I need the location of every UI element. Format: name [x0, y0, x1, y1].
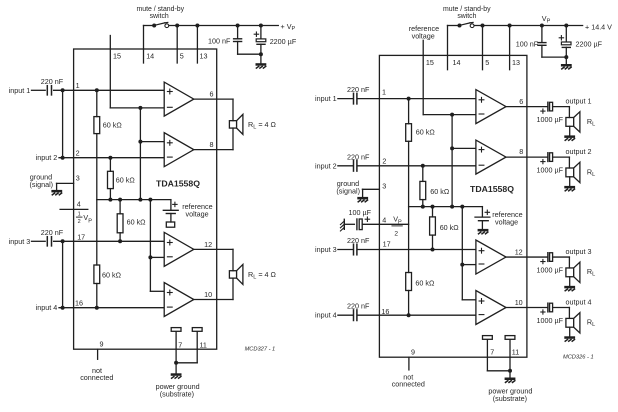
- svg-text:input 2: input 2: [36, 153, 58, 162]
- svg-text:input 1: input 1: [315, 94, 337, 103]
- svg-text:MCD327 - 1: MCD327 - 1: [245, 346, 276, 352]
- svg-text:8: 8: [519, 147, 523, 156]
- svg-text:17: 17: [77, 232, 85, 241]
- svg-text:60 kΩ: 60 kΩ: [416, 127, 436, 136]
- svg-text:2: 2: [382, 156, 386, 165]
- svg-text:220 nF: 220 nF: [347, 302, 370, 311]
- svg-text:60 kΩ: 60 kΩ: [430, 187, 450, 196]
- svg-text:1000 µF: 1000 µF: [537, 266, 564, 275]
- svg-text:9: 9: [100, 339, 104, 348]
- svg-text:220 nF: 220 nF: [347, 152, 370, 161]
- svg-text:output 1: output 1: [566, 96, 592, 105]
- svg-text:input 3: input 3: [315, 245, 337, 254]
- svg-text:14: 14: [453, 58, 461, 67]
- svg-text:1: 1: [76, 81, 80, 90]
- svg-text:17: 17: [383, 239, 391, 248]
- svg-text:switch: switch: [457, 13, 476, 20]
- svg-text:220 nF: 220 nF: [347, 236, 370, 245]
- svg-text:1: 1: [78, 211, 81, 217]
- svg-text:100 µF: 100 µF: [349, 208, 372, 217]
- svg-text:(signal): (signal): [30, 180, 54, 189]
- svg-text:10: 10: [204, 290, 212, 299]
- svg-text:3: 3: [382, 181, 386, 190]
- svg-text:1000 µF: 1000 µF: [537, 166, 564, 175]
- svg-text:5: 5: [485, 58, 489, 67]
- svg-text:input 2: input 2: [315, 161, 337, 170]
- svg-text:100 nF: 100 nF: [208, 37, 231, 46]
- svg-text:12: 12: [515, 247, 523, 256]
- svg-text:8: 8: [210, 140, 214, 149]
- svg-text:2: 2: [76, 148, 80, 157]
- svg-text:connected: connected: [80, 373, 113, 382]
- svg-text:60 kΩ: 60 kΩ: [415, 279, 435, 288]
- svg-text:100 nF: 100 nF: [516, 40, 539, 49]
- svg-text:5: 5: [180, 52, 184, 61]
- svg-text:1: 1: [382, 87, 386, 96]
- svg-text:output 3: output 3: [566, 247, 592, 256]
- svg-text:MCD326 - 1: MCD326 - 1: [563, 354, 594, 360]
- svg-text:2: 2: [78, 219, 81, 225]
- svg-text:voltage: voltage: [495, 217, 518, 226]
- svg-text:60 kΩ: 60 kΩ: [116, 176, 136, 185]
- svg-text:6: 6: [210, 89, 214, 98]
- svg-text:220 nF: 220 nF: [41, 77, 64, 86]
- svg-text:1000 µF: 1000 µF: [537, 316, 564, 325]
- svg-text:input 4: input 4: [36, 303, 58, 312]
- svg-text:2200 µF: 2200 µF: [270, 37, 297, 46]
- svg-text:14: 14: [146, 52, 154, 61]
- svg-text:7: 7: [490, 348, 494, 357]
- svg-text:voltage: voltage: [186, 210, 209, 219]
- svg-text:mute / stand-by: mute / stand-by: [443, 6, 491, 13]
- svg-text:15: 15: [113, 52, 121, 61]
- svg-text:7: 7: [178, 340, 182, 349]
- svg-text:60 kΩ: 60 kΩ: [127, 217, 147, 226]
- svg-text:10: 10: [515, 298, 523, 307]
- svg-text:4: 4: [77, 200, 81, 209]
- svg-text:220 nF: 220 nF: [41, 228, 64, 237]
- svg-text:output 4: output 4: [566, 297, 592, 306]
- svg-text:9: 9: [411, 348, 415, 357]
- svg-text:60 kΩ: 60 kΩ: [440, 223, 460, 232]
- svg-text:+ 14.4 V: + 14.4 V: [585, 22, 612, 31]
- svg-text:(substrate): (substrate): [160, 389, 194, 398]
- svg-text:220 nF: 220 nF: [347, 85, 370, 94]
- svg-text:4: 4: [382, 216, 386, 225]
- svg-text:(substrate): (substrate): [493, 394, 527, 403]
- svg-text:connected: connected: [392, 380, 425, 389]
- svg-text:TDA1558Q: TDA1558Q: [470, 184, 514, 194]
- svg-text:11: 11: [199, 340, 206, 349]
- svg-text:1000 µF: 1000 µF: [537, 115, 564, 124]
- svg-text:60 kΩ: 60 kΩ: [103, 120, 123, 129]
- svg-text:switch: switch: [150, 13, 169, 20]
- svg-text:2200 µF: 2200 µF: [576, 39, 603, 48]
- svg-text:voltage: voltage: [412, 31, 435, 40]
- svg-text:12: 12: [204, 240, 212, 249]
- svg-text:16: 16: [75, 298, 83, 307]
- svg-text:13: 13: [200, 52, 208, 61]
- svg-text:TDA1558Q: TDA1558Q: [156, 179, 200, 189]
- svg-text:13: 13: [512, 58, 520, 67]
- svg-text:60 kΩ: 60 kΩ: [102, 271, 122, 280]
- svg-text:(signal): (signal): [336, 186, 360, 195]
- svg-text:input 3: input 3: [9, 237, 31, 246]
- svg-text:mute / stand-by: mute / stand-by: [137, 6, 185, 13]
- svg-text:output 2: output 2: [566, 147, 592, 156]
- svg-text:3: 3: [76, 173, 80, 182]
- svg-text:input 1: input 1: [9, 86, 31, 95]
- svg-text:6: 6: [519, 97, 523, 106]
- svg-text:2: 2: [394, 231, 398, 238]
- svg-text:11: 11: [512, 348, 519, 357]
- svg-text:input 4: input 4: [315, 311, 337, 320]
- svg-text:15: 15: [426, 58, 434, 67]
